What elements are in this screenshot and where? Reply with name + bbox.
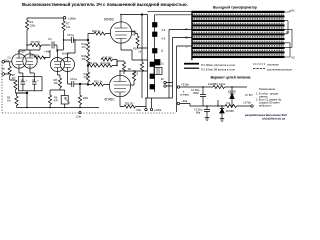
svg-text:R19: R19 bbox=[133, 48, 138, 51]
wire V2b anode bbox=[68, 40, 76, 58]
node j5 bbox=[79, 83, 81, 85]
resistor R16 bbox=[86, 54, 89, 64]
svg-text:4,6: 4,6 bbox=[162, 37, 166, 41]
wire R4 to C4 bbox=[27, 44, 51, 46]
wire splitter bbox=[100, 61, 124, 66]
wire R22 bbox=[133, 70, 135, 71]
wire V3 screen bbox=[132, 32, 138, 37]
svg-text:6Н1П: 6Н1П bbox=[18, 50, 25, 54]
resistor R6 bbox=[34, 56, 46, 59]
wire -40V bbox=[180, 104, 190, 107]
svg-text:R16 22к: R16 22к bbox=[103, 55, 114, 59]
capacitor C3psu bbox=[204, 106, 210, 115]
V1 internals bbox=[16, 54, 34, 68]
connector block 2 bbox=[153, 32, 158, 37]
svg-text:R22: R22 bbox=[134, 73, 139, 76]
svg-text:6П45С: 6П45С bbox=[105, 97, 116, 101]
capacitor C2 bbox=[32, 77, 37, 91]
svg-text:ТВЗ 2б7: ТВЗ 2б7 bbox=[125, 102, 135, 105]
PSU terminal +270V bbox=[251, 105, 253, 107]
zener KS568 bbox=[219, 106, 224, 116]
svg-text:3,5: 3,5 bbox=[162, 28, 166, 32]
output transformer winding stack bbox=[191, 11, 284, 60]
wire R12 bbox=[87, 40, 89, 54]
wire R10 bbox=[79, 84, 81, 108]
triode V1a circle bbox=[12, 54, 26, 68]
wire R9 down bbox=[64, 104, 66, 108]
svg-text:4к7: 4к7 bbox=[12, 77, 16, 80]
svg-text:12к(5Вт) 2(4)w: 12к(5Вт) 2(4)w bbox=[208, 82, 225, 86]
wire R16b bbox=[113, 60, 118, 66]
wire bottom bus right bbox=[136, 30, 177, 113]
node j3 bbox=[87, 84, 89, 86]
node j2 bbox=[87, 65, 89, 67]
PSU terminal -40V bbox=[177, 102, 179, 104]
terminal out1 bbox=[164, 81, 166, 83]
wire R21 down bbox=[138, 46, 148, 48]
connector block 3 bbox=[153, 49, 158, 54]
svg-text:6Н1П: 6Н1П bbox=[62, 52, 69, 56]
triode V2a circle bbox=[51, 58, 65, 72]
wire plus40 node bbox=[19, 45, 40, 54]
pentode V4 circle bbox=[109, 75, 130, 96]
potentiometer R9 bbox=[61, 96, 68, 105]
wire box down bbox=[26, 91, 28, 108]
resistor R16b bbox=[101, 58, 113, 61]
resistor R4 bbox=[30, 43, 42, 46]
terminal out2 bbox=[164, 85, 166, 87]
svg-text:КС568: КС568 bbox=[226, 109, 234, 113]
svg-text:470: 470 bbox=[54, 100, 59, 103]
wire V4 cathode bbox=[120, 97, 124, 107]
cathode box C1 C2 bbox=[18, 77, 42, 91]
chassis dashed border bbox=[2, 62, 176, 113]
svg-text:R4 750: R4 750 bbox=[31, 40, 40, 44]
output box marks bbox=[156, 69, 160, 73]
resistor R12 bbox=[86, 42, 89, 52]
ground p2 bbox=[220, 116, 224, 122]
wire V4 screen bbox=[131, 81, 134, 85]
resistor R7 bbox=[62, 21, 65, 31]
PSU top rail 2 bbox=[225, 86, 248, 88]
resistor R10 bbox=[78, 95, 81, 105]
value labels left schematic bbox=[2, 16, 189, 118]
svg-text:−40в: −40в bbox=[181, 99, 188, 103]
input terminal 1 bbox=[2, 61, 5, 64]
triode V2b circle bbox=[61, 58, 75, 72]
svg-text:R6 750: R6 750 bbox=[30, 54, 39, 58]
wire R3 down bbox=[26, 18, 28, 45]
svg-text:R7: R7 bbox=[66, 22, 70, 26]
svg-text:+230в: +230в bbox=[154, 108, 162, 112]
svg-text:Вариант цепей питания.: Вариант цепей питания. bbox=[211, 76, 252, 80]
legend wire sample 2 bbox=[184, 68, 199, 69]
wire out stubs bbox=[166, 83, 172, 87]
svg-text:32: 32 bbox=[185, 36, 188, 40]
V4 internals bbox=[114, 75, 131, 96]
wire R5 bbox=[17, 93, 28, 108]
resistor R8 bbox=[58, 78, 61, 88]
svg-text:R15 1к: R15 1к bbox=[94, 79, 103, 83]
svg-text:100к: 100к bbox=[30, 24, 36, 28]
resistor R21 bbox=[136, 36, 139, 46]
svg-text:С4: С4 bbox=[48, 37, 52, 41]
resistor R1 bbox=[8, 66, 11, 76]
V2 internals bbox=[54, 58, 71, 72]
capacitor C5 bbox=[64, 37, 89, 43]
wire R19b bbox=[123, 61, 125, 74]
svg-text:А1: А1 bbox=[291, 9, 295, 13]
wire V4 anode bbox=[120, 71, 148, 75]
wire R13 bbox=[87, 66, 89, 85]
svg-text:R34 1к: R34 1к bbox=[92, 29, 101, 33]
wire V2 cathodes bbox=[58, 72, 68, 85]
capacitor C4 bbox=[52, 42, 57, 53]
svg-text:+310в: +310в bbox=[181, 83, 189, 87]
PSU top rail bbox=[180, 86, 213, 88]
svg-text:21: 21 bbox=[185, 27, 188, 31]
svg-text:С5 1μ: С5 1μ bbox=[67, 33, 75, 37]
wire R7 bbox=[63, 19, 65, 40]
node j1 bbox=[87, 39, 89, 41]
transformer right leads bbox=[285, 10, 293, 57]
wire R6 bbox=[44, 50, 50, 58]
bus column right bbox=[154, 20, 156, 92]
output box bbox=[154, 68, 162, 75]
wire V3 cathode bbox=[121, 43, 148, 60]
svg-text:6П45С: 6П45С bbox=[104, 18, 115, 22]
pentode V3 circle bbox=[110, 22, 131, 43]
wire cathodes bbox=[19, 68, 34, 76]
wire R34 to V3 grid bbox=[88, 33, 110, 35]
wire bottom bus left bbox=[17, 107, 100, 109]
terminal +180V bbox=[63, 17, 66, 20]
node j6 bbox=[141, 14, 143, 16]
resistor R15 bbox=[92, 83, 104, 86]
svg-text:32: 32 bbox=[161, 77, 164, 81]
node dots bbox=[26, 14, 232, 108]
wire R15 to V4 grid bbox=[88, 84, 109, 86]
resistor R34 bbox=[94, 32, 106, 35]
terminal +230V bbox=[150, 108, 152, 110]
PSU mid rail bbox=[190, 105, 251, 107]
resistor R3 bbox=[25, 20, 28, 30]
svg-text:+40в: +40в bbox=[44, 50, 51, 54]
wire R8 down bbox=[50, 88, 65, 96]
svg-text:С9 1μ: С9 1μ bbox=[70, 77, 78, 81]
resistor R2 bbox=[14, 80, 17, 90]
terminal -54V bbox=[145, 108, 147, 110]
wire anode to primary A bbox=[148, 10, 192, 12]
svg-text:А2: А2 bbox=[291, 56, 295, 60]
svg-text:изоляция: изоляция bbox=[267, 64, 279, 67]
resistor R19b bbox=[122, 62, 125, 72]
wire feedback down bbox=[141, 72, 143, 98]
resistor R22 bbox=[132, 71, 135, 81]
svg-text:club@klest.ob.ua: club@klest.ob.ua bbox=[262, 117, 286, 121]
wire node up bbox=[87, 34, 89, 41]
svg-text:11: 11 bbox=[161, 49, 164, 53]
wire R8b down bbox=[49, 105, 51, 108]
svg-text:сетевую: сетевую bbox=[180, 94, 189, 97]
connector block 4 bbox=[150, 62, 155, 67]
resistor R20 bbox=[140, 62, 143, 72]
svg-text:П 0,67мм, 86 витков в слое: П 0,67мм, 86 витков в слое bbox=[201, 68, 235, 72]
svg-text:−54в: −54в bbox=[135, 108, 141, 112]
transformer winding leads left bbox=[169, 30, 192, 47]
input terminal 2 bbox=[2, 73, 5, 76]
svg-text:1М: 1М bbox=[7, 100, 10, 103]
wire V3 anode up bbox=[121, 15, 148, 22]
svg-text:21: 21 bbox=[161, 61, 164, 65]
svg-text:КД208: КД208 bbox=[228, 90, 236, 94]
pot R9 arrow bbox=[65, 98, 70, 104]
resistor Rpsu bbox=[213, 85, 225, 88]
svg-text:450в: 450в bbox=[193, 91, 199, 95]
resistor R8b bbox=[48, 95, 51, 105]
svg-text:Выходной трансформатор: Выходной трансформатор bbox=[213, 6, 257, 10]
wire input bbox=[5, 62, 12, 74]
svg-text:+180в: +180в bbox=[68, 16, 77, 20]
connector block 7 bbox=[155, 60, 160, 66]
wire anode V2 bbox=[58, 40, 64, 58]
wire psu vertical bbox=[217, 100, 219, 106]
svg-text:R11 22к: R11 22к bbox=[88, 61, 98, 65]
connector block 6 bbox=[150, 85, 155, 90]
resistor R5 bbox=[15, 96, 18, 106]
node j4 bbox=[26, 92, 28, 94]
resistor R47k bbox=[225, 104, 237, 107]
connector block 5 bbox=[150, 74, 155, 79]
capacitor C9 bbox=[68, 81, 89, 87]
ground p1 bbox=[205, 115, 209, 121]
resistor R13 bbox=[86, 72, 89, 82]
svg-text:усиленнаяизоляция: усиленнаяизоляция bbox=[267, 69, 292, 72]
diode KD208 bbox=[230, 87, 234, 106]
wire R1 bbox=[9, 62, 11, 80]
svg-text:80в: 80в bbox=[196, 111, 201, 115]
svg-text:+270в: +270в bbox=[243, 101, 251, 105]
svg-text:100к: 100к bbox=[83, 96, 89, 100]
capacitor C1 bbox=[21, 77, 26, 91]
svg-text:выбросить.: выбросить. bbox=[259, 105, 272, 108]
V3 internals bbox=[115, 22, 132, 43]
resistor Rk bbox=[124, 105, 136, 108]
svg-text:П 0,38мм, 102 витка в слое: П 0,38мм, 102 витка в слое bbox=[201, 63, 236, 67]
wire R2 bbox=[10, 80, 27, 93]
resistor R17 bbox=[101, 64, 113, 67]
svg-text:R17 22к: R17 22к bbox=[101, 61, 112, 65]
wire R16 bbox=[87, 64, 89, 66]
capacitor C1psu bbox=[200, 87, 206, 106]
terminal chassis 0.3V bbox=[79, 112, 81, 114]
triode V1b circle bbox=[23, 54, 37, 68]
legend insulation sample bbox=[253, 63, 265, 65]
legend interlayer sample bbox=[253, 68, 265, 70]
bus column left bbox=[147, 15, 149, 99]
resistor R11 bbox=[89, 64, 101, 67]
connector block 1 bbox=[153, 23, 158, 28]
svg-text:R3: R3 bbox=[30, 20, 34, 24]
wire feedback bbox=[141, 15, 143, 63]
svg-text:Высококачественный усилитель З: Высококачественный усилитель ЗЧ с повыше… bbox=[22, 1, 188, 7]
wire top rail bbox=[27, 17, 63, 19]
PSU terminal +310V bbox=[177, 86, 179, 88]
svg-text:От БП: От БП bbox=[245, 93, 253, 97]
svg-text:Примечания: Примечания bbox=[259, 87, 276, 91]
svg-text:0,3в: 0,3в bbox=[76, 115, 82, 119]
legend wire sample 1 bbox=[184, 63, 199, 65]
wire anode to primary B bbox=[155, 15, 192, 20]
